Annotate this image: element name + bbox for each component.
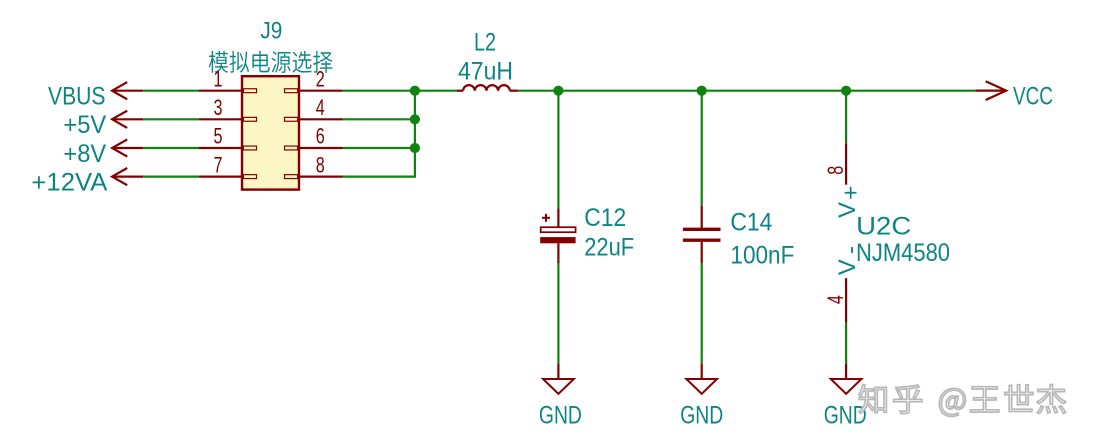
wire L2 to VCC [518,90,975,92]
svg-text:NJM4580: NJM4580 [856,239,950,267]
svg-text:VCC: VCC [1013,83,1053,111]
J9 pin 5 lead [199,147,242,149]
svg-text:L2: L2 [474,29,496,57]
svg-text:+8V: +8V [63,140,106,168]
junction at C14 [697,86,707,96]
svg-text:4: 4 [823,295,848,304]
svg-text:J9: J9 [260,18,282,45]
svg-text:22uF: 22uF [584,234,634,262]
watermark 知乎 @王世杰 [859,385,1066,417]
wire C12 to GND [557,263,559,364]
wire from J9 pin 2 to bus [343,90,417,92]
wire U2C V- pin to GND [845,323,847,364]
wire main to C12 [557,91,559,209]
wire from label +5V to J9 pin 3 [143,118,199,120]
svg-text:U2C: U2C [856,212,911,240]
capacitor C14 [683,206,721,263]
wire from J9 pin 4 to bus [343,118,417,120]
svg-text:+5V: +5V [63,111,106,139]
svg-text:7: 7 [214,152,223,177]
wire C14 to GND [701,263,703,364]
svg-text:100nF: 100nF [730,241,794,269]
svg-text:+: + [838,186,865,200]
J9 pin 7 lead [199,176,242,178]
svg-text:8: 8 [823,166,848,175]
global label VCC [975,81,1053,111]
global label +8V [63,139,143,168]
ground symbol below U2C [824,364,867,430]
ground symbol below C12 [539,364,582,430]
svg-text:GND: GND [539,402,582,430]
inductor L2 [457,85,518,91]
wire bus to L2 [415,90,457,92]
junction at bus/main wire [410,86,420,96]
J9 pin 2 lead [299,90,343,92]
svg-text:GND: GND [824,402,867,430]
svg-text:8: 8 [316,152,325,177]
vertical bus wire joining pins 2,4,6,8 [414,91,416,177]
junction at U2C [841,86,851,96]
wire main to C14 [701,91,703,206]
op-amp U2C power unit [823,143,865,322]
J9 pin 6 lead [299,147,343,149]
J9 pin 2 notch [285,89,298,93]
svg-text:C12: C12 [584,204,626,232]
svg-text:+12VA: +12VA [31,169,107,197]
J9 pin 3 lead [199,118,242,120]
global label +12VA [31,168,143,197]
svg-text:3: 3 [214,95,223,120]
J9 pin 7 notch [243,175,256,179]
svg-text:6: 6 [316,124,325,149]
wire from J9 pin 6 to bus [343,147,417,149]
svg-text:GND: GND [680,402,723,430]
connector J9 value label 模拟电源选择 [209,51,333,73]
global label VBUS [48,82,143,111]
junction at C12 [553,86,563,96]
wire from label +12VA to J9 pin 7 [143,176,199,178]
capacitor C12 (polarized) [540,208,575,263]
J9 pin 8 notch [285,175,298,179]
svg-text:C14: C14 [730,209,772,237]
wire main to U2C V+ pin [845,91,847,144]
svg-text:2: 2 [316,66,325,91]
svg-text:47uH: 47uH [458,58,513,86]
svg-text:VBUS: VBUS [48,83,106,111]
svg-text:1: 1 [214,66,223,91]
junction at bus pin 6 [410,143,420,153]
ground symbol below C14 [680,364,723,430]
wire from label VBUS to J9 pin 1 [143,90,199,92]
J9 pin 1 notch [243,89,256,93]
J9 pin 3 notch [243,117,256,121]
J9 pin 5 notch [243,146,256,150]
J9 pin 8 lead [299,176,343,178]
J9 pin 1 lead [199,90,242,92]
J9 pin 6 notch [285,146,298,150]
connector J9 body [242,76,299,189]
junction at bus pin 4 [410,114,420,124]
J9 pin 4 lead [299,118,343,120]
J9 pin 4 notch [285,117,298,121]
wire from J9 pin 8 to bus [343,176,417,178]
wire from label +8V to J9 pin 5 [143,147,199,149]
svg-text:4: 4 [316,95,325,120]
global label +5V [63,111,143,140]
svg-text:5: 5 [214,124,223,149]
